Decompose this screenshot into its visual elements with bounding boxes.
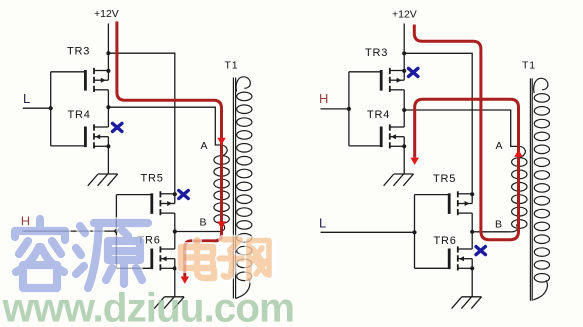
node node B junction left xyxy=(173,229,177,233)
OFF marker X on TR3 right xyxy=(409,68,418,76)
node L input junction left xyxy=(49,106,53,110)
transistor TR6 left (N-MOSFET) xyxy=(152,246,175,270)
svg-text:TR3: TR3 xyxy=(67,46,90,58)
watermark xyxy=(2,219,295,327)
wire TR5 source to TR6 drain right xyxy=(471,213,473,249)
svg-text:+12V: +12V xyxy=(392,9,417,21)
node node B junction right xyxy=(470,230,474,234)
wire node B to primary left xyxy=(175,231,220,233)
svg-text:B: B xyxy=(200,217,207,229)
wire gate bracket TR5/TR6 right xyxy=(415,195,449,269)
watermark glyph DIAN (电) xyxy=(181,240,214,278)
wire T1 core left xyxy=(233,78,235,299)
wire TR4 source to ground right xyxy=(403,146,405,174)
secondary loops right xyxy=(534,94,549,283)
svg-text:T1: T1 xyxy=(522,60,536,72)
svg-text:TR3: TR3 xyxy=(365,47,388,59)
wire node B to primary right xyxy=(472,231,509,233)
svg-text:L: L xyxy=(23,91,30,106)
OFF marker X on TR6 right xyxy=(476,247,485,255)
node +12V branch junction left xyxy=(106,51,110,55)
current path (red) right: +12V through TR5 into B, out A through TR4 to ground xyxy=(414,25,518,240)
svg-text:T1: T1 xyxy=(225,60,239,72)
svg-text:+12V: +12V xyxy=(94,8,119,20)
wire +12V rail left xyxy=(107,24,109,72)
node L input junction right xyxy=(412,230,416,234)
T1 primary winding left (A-B) xyxy=(219,145,227,156)
current arrow to ground left xyxy=(181,277,190,284)
wire L input wire right xyxy=(321,231,415,233)
transistor TR3 left (P-MOSFET) xyxy=(85,68,108,92)
wire TR6 source to ground left xyxy=(174,268,176,297)
node H input junction left xyxy=(114,229,118,233)
svg-text:H: H xyxy=(319,91,328,106)
node output node right half-bridge xyxy=(402,108,406,112)
wire TR5 source to TR6 drain left xyxy=(174,213,176,249)
svg-text:TR4: TR4 xyxy=(68,109,91,121)
watermark glyph WANG (网) xyxy=(249,241,269,279)
wire node to primary A right xyxy=(404,110,517,146)
current arrow out of B left xyxy=(217,221,226,228)
transistor TR5 right (P-MOSFET) xyxy=(449,191,472,215)
wire TR4 source to ground left xyxy=(107,146,109,174)
wire TR6 source to ground right xyxy=(471,268,473,297)
svg-text:A: A xyxy=(496,140,503,152)
transistor TR3 right (P-MOSFET) xyxy=(381,68,404,92)
svg-text:TR5: TR5 xyxy=(141,173,164,185)
svg-text:TR5: TR5 xyxy=(433,173,456,185)
T1 secondary winding left xyxy=(236,77,250,92)
wire L input wire left xyxy=(23,107,51,109)
ground below TR4 left xyxy=(88,174,118,186)
wire branch +12V to TR5 drain left xyxy=(108,53,174,194)
transistor TR4 left (N-MOSFET) xyxy=(85,124,108,148)
wire node to primary A left xyxy=(108,107,218,145)
transistor TR4 right (N-MOSFET) xyxy=(381,124,404,148)
current path (red) left: +12V through TR3 into A, out B through TR6 to ground xyxy=(117,22,222,278)
node H input junction right xyxy=(347,107,351,111)
svg-text:B: B xyxy=(495,219,502,231)
T1 secondary winding right xyxy=(534,78,548,93)
OFF marker X on TR4 left xyxy=(113,123,122,131)
transistor TR6 right (N-MOSFET) xyxy=(449,246,472,270)
wire H input wire left xyxy=(23,230,117,232)
OFF marker X on TR5 left xyxy=(179,191,188,199)
wire TR3 source to TR4 drain right xyxy=(403,90,405,127)
ground below TR6 left xyxy=(154,297,184,309)
wire T1 core right xyxy=(530,78,532,300)
current arrow to ground right xyxy=(410,158,419,165)
wire gate bracket TR3/TR4 left xyxy=(51,72,84,146)
wire H input wire right xyxy=(321,108,349,110)
svg-text:TR6: TR6 xyxy=(434,235,457,247)
secondary loops left xyxy=(237,92,252,281)
svg-text:TR4: TR4 xyxy=(367,109,390,121)
wire gate bracket TR3/TR4 right xyxy=(349,72,381,146)
transistor TR5 left (P-MOSFET) xyxy=(152,191,175,215)
current arrow out of A right (up) xyxy=(514,150,523,157)
watermark glyph YUAN (源) xyxy=(76,223,148,288)
svg-text:L: L xyxy=(319,216,326,231)
svg-text:A: A xyxy=(201,140,208,152)
watermark glyph ZI (子) xyxy=(220,240,246,277)
current arrow into A left xyxy=(217,138,226,145)
wire branch +12V to TR5 drain right xyxy=(404,53,472,194)
node output node left half-bridge xyxy=(106,105,110,109)
primary loops left xyxy=(214,156,229,224)
wire gate bracket TR5/TR6 left xyxy=(116,195,150,269)
primary loops right xyxy=(512,158,527,229)
ground below TR6 right xyxy=(452,297,482,309)
T1 primary winding right (A-B) xyxy=(517,146,525,157)
ground below TR4 right xyxy=(384,174,414,186)
wire +12V rail right xyxy=(403,24,405,72)
svg-text:www.dziuu.com: www.dziuu.com xyxy=(2,285,295,327)
watermark glyph RONG (容) xyxy=(15,219,65,288)
node +12V branch junction right xyxy=(402,51,406,55)
wire TR3 source to TR4 drain left xyxy=(107,90,109,127)
